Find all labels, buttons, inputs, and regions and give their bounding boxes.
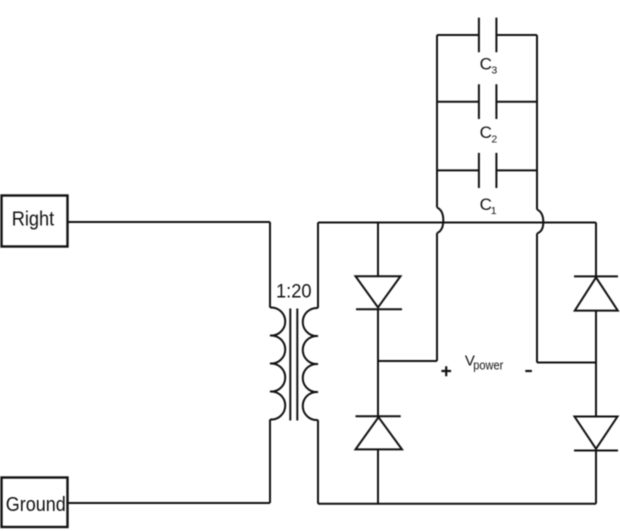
- svg-text:2: 2: [491, 134, 497, 146]
- svg-text:C: C: [480, 55, 492, 74]
- svg-text:Ground: Ground: [6, 494, 66, 516]
- svg-text:1: 1: [491, 205, 497, 217]
- svg-text:1:20: 1:20: [276, 281, 312, 303]
- svg-text:3: 3: [491, 65, 497, 77]
- svg-text:C: C: [480, 123, 492, 142]
- svg-text:power: power: [473, 359, 503, 373]
- svg-text:Right: Right: [12, 208, 55, 231]
